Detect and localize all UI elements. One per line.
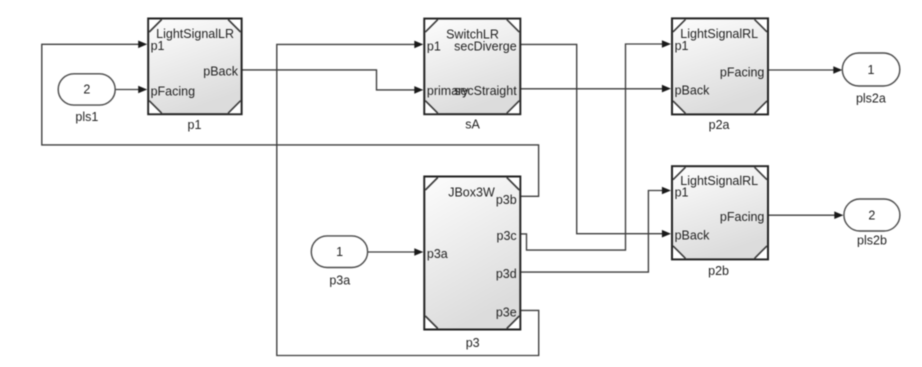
svg-text:pBack: pBack xyxy=(675,83,710,97)
svg-text:LightSignalLR: LightSignalLR xyxy=(156,27,234,41)
svg-text:2: 2 xyxy=(868,209,875,223)
svg-text:p3c: p3c xyxy=(497,229,517,243)
svg-text:p1: p1 xyxy=(151,39,165,53)
svg-text:pls2a: pls2a xyxy=(856,91,886,105)
svg-text:LightSignalRL: LightSignalRL xyxy=(680,174,758,188)
svg-text:sA: sA xyxy=(465,118,480,132)
svg-text:pBack: pBack xyxy=(203,64,238,78)
svg-text:p1: p1 xyxy=(427,39,441,53)
svg-text:2: 2 xyxy=(83,83,90,97)
svg-text:p3: p3 xyxy=(466,336,480,350)
svg-text:pBack: pBack xyxy=(675,229,710,243)
svg-text:pFacing: pFacing xyxy=(720,65,765,79)
svg-text:pFacing: pFacing xyxy=(151,84,196,98)
svg-text:p1: p1 xyxy=(675,39,689,53)
svg-text:p1: p1 xyxy=(188,118,202,132)
svg-text:pFacing: pFacing xyxy=(720,210,765,224)
svg-text:JBox3W: JBox3W xyxy=(448,186,495,200)
svg-text:secDiverge: secDiverge xyxy=(454,39,517,53)
svg-text:p3a: p3a xyxy=(329,274,350,288)
svg-text:p3e: p3e xyxy=(496,305,517,319)
svg-text:p3b: p3b xyxy=(496,193,517,207)
svg-text:1: 1 xyxy=(336,245,343,259)
svg-text:p1: p1 xyxy=(675,185,689,199)
svg-text:LightSignalRL: LightSignalRL xyxy=(680,27,758,41)
svg-text:pls2b: pls2b xyxy=(857,233,887,247)
svg-text:p2b: p2b xyxy=(708,264,729,278)
svg-text:p2a: p2a xyxy=(709,118,730,132)
svg-text:secStraight: secStraight xyxy=(454,84,517,98)
svg-text:p3a: p3a xyxy=(427,247,448,261)
svg-text:1: 1 xyxy=(868,63,875,77)
svg-text:p3d: p3d xyxy=(496,267,517,281)
svg-text:pls1: pls1 xyxy=(75,110,98,124)
